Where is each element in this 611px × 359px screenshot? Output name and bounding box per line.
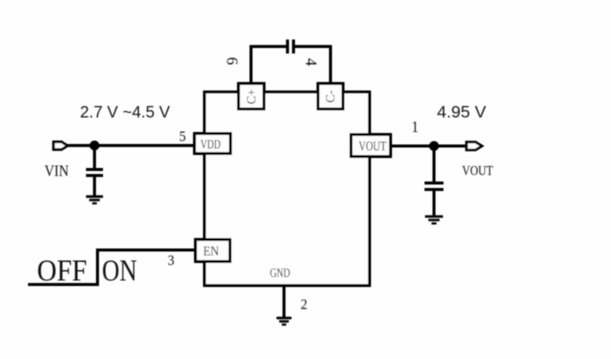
pin EN (pin 3 box) [196,240,231,262]
wire: output cap top lead [433,146,436,182]
port VOUT (output port symbol) [467,142,483,150]
svg-text:C+: C+ [245,89,259,104]
wire: input cap top lead [93,146,96,169]
node: output junction [429,141,439,151]
pin VDD (pin 5 box) [195,134,231,154]
ground (output cap) [425,215,443,218]
svg-text:5: 5 [179,128,186,145]
svg-text:6: 6 [223,57,240,65]
port VIN (input port symbol) [54,142,68,150]
svg-text:OFF: OFF [37,254,87,288]
pin C- (pin 4 box) [318,84,343,110]
svg-text:ON: ON [102,254,137,289]
op-amp U1 (charge-pump IC body) [205,92,370,286]
svg-text:2.7 V ~4.5 V: 2.7 V ~4.5 V [80,103,171,122]
svg-text:VDD: VDD [200,138,220,152]
capacitor C3 (output cap) [425,182,444,185]
ground (input cap) [86,195,103,198]
svg-text:EN: EN [203,243,219,259]
svg-text:C-: C- [324,90,338,103]
svg-text:VIN: VIN [45,163,69,180]
wire: input cap bottom lead [93,177,96,197]
wire: VIN input to VDD pin 5 [64,144,196,147]
pin VOUT (pin 1 box) [351,135,391,157]
ground (GND pin) [277,317,292,320]
svg-text:1: 1 [411,118,418,136]
svg-text:3: 3 [168,252,175,269]
wire: EN control step waveform [28,250,196,285]
capacitor C1 (flying cap plates) [286,40,289,54]
wire: VOUT pin 1 to output port [389,145,468,148]
node: input junction [90,141,100,151]
svg-text:2: 2 [301,296,308,313]
wire: output cap bottom lead [433,191,436,216]
svg-text:4: 4 [302,58,319,66]
wire: flying cap top loop (pin6 lead, top lead, pin4 lead) [251,47,286,93]
svg-text:GND: GND [270,267,290,281]
pin C+ (pin 6 box) [239,84,265,110]
svg-text:VOUT: VOUT [359,138,387,154]
svg-text:VOUT: VOUT [462,163,493,178]
wire: GND pin 2 lead [283,285,286,317]
svg-text:4.95 V: 4.95 V [437,103,487,122]
capacitor C2 (input cap) [86,168,103,171]
